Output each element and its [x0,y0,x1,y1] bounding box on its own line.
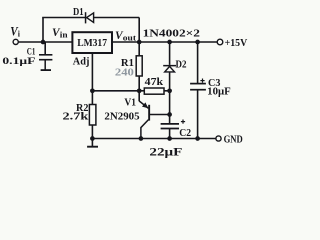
svg-text:2N2905: 2N2905 [104,111,140,123]
wire top rail right of D1 [94,17,140,19]
svg-text:in: in [60,29,68,39]
regulator U1 LM317 box [72,32,112,53]
background paper [0,0,254,160]
node Adj/R2 junction [90,88,95,93]
wire C3 top lead [197,42,199,83]
svg-text:C1: C1 [27,46,36,56]
resistor R1 [136,56,142,76]
node Vout/C3 junction [195,40,200,45]
node Vout/D2 junction [167,40,172,45]
node GND/collector junction [139,136,144,141]
wire drop from top rail to Vout rail [138,18,140,43]
node base/C2 junction [167,112,172,117]
wire R2 bottom lead [91,125,93,139]
terminal GND [216,136,221,141]
svg-text:D2: D2 [176,58,187,70]
svg-text:47k: 47k [145,76,164,88]
diode D1 [85,12,94,23]
node 47k/D2/C2 junction [167,88,172,93]
svg-text:V1: V1 [124,97,136,109]
wire GND rail [92,138,216,140]
terminal +15V [217,39,223,45]
wire D2 bottom lead [169,72,171,91]
node Adj/R1/emitter junction [137,88,142,93]
ground symbol [87,139,98,147]
node input junction [41,40,46,45]
svg-text:LM317: LM317 [77,38,107,49]
node GND/C3 junction [195,136,200,141]
wire Vout rail [112,41,217,43]
wire R1 top lead [138,42,140,56]
svg-text:Adj: Adj [73,57,90,68]
wire riser input node to top rail [42,18,44,43]
resistor R2 [89,105,96,126]
transistor Q1 2N2905 [139,91,150,139]
resistor 47k horizontal [144,88,164,94]
svg-text:22μF: 22μF [149,145,182,159]
svg-text:GND: GND [224,135,243,146]
svg-text:240: 240 [115,67,135,79]
wire V1 base lead [150,114,170,116]
wire node B down to C2 [169,91,171,124]
wire 47k left lead [139,90,144,92]
node GND/C2 junction [167,136,172,141]
wire input Vi to LM317 Vin [18,41,72,43]
svg-text:10μF: 10μF [207,86,231,97]
node GND/R2 junction [90,136,95,141]
svg-text:+15V: +15V [225,37,248,49]
svg-text:1N4002×2: 1N4002×2 [143,28,201,40]
capacitor C2 [161,120,186,129]
wire LM317 Adj pin down [91,53,93,91]
wire C3 bottom lead [197,90,199,138]
wire Adj rail [92,90,139,92]
wire C2 bottom lead [169,129,171,139]
wire R1 bottom lead [138,76,140,91]
collector lead [141,120,149,139]
diode D2 [163,65,176,72]
capacitor C1 [39,55,52,70]
capacitor C3 [190,79,206,90]
terminal Vi [13,39,18,44]
emitter lead [138,91,140,101]
wire top rail left of D1 [42,17,85,19]
svg-text:2.7k: 2.7k [63,111,90,123]
wire 47k right lead [164,90,170,92]
svg-text:D1: D1 [73,6,84,18]
wire D2 top lead [169,42,171,65]
svg-text:out: out [123,33,136,43]
wire C1 top lead [44,42,46,55]
node Vout/D1/R1 junction [137,40,142,45]
svg-text:C2: C2 [179,127,191,139]
wire R2 top lead [91,91,93,105]
svg-text:0.1μF: 0.1μF [2,57,35,67]
